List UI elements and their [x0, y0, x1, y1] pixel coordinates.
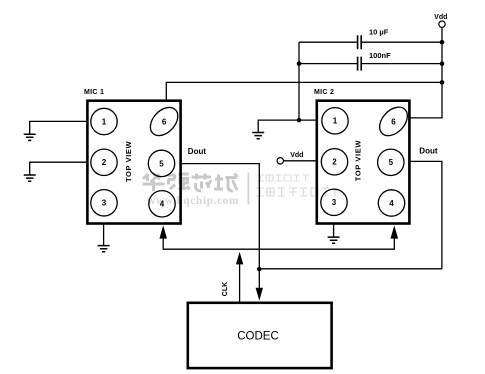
ground stem mic2 pin3: [333, 223, 335, 237]
svg-text:Dout: Dout: [419, 147, 438, 156]
svg-text:5: 5: [159, 159, 164, 168]
ground (mic2 pin1): [252, 133, 264, 139]
ground stem mic1 pin3: [103, 223, 105, 245]
svg-text:Dout: Dout: [188, 147, 207, 156]
node junction vdd rail 10uF: [440, 40, 445, 45]
svg-text:5: 5: [389, 158, 394, 167]
node junction vdd rail 100nF: [440, 61, 445, 66]
svg-text:6: 6: [162, 117, 167, 126]
svg-text:CODEC: CODEC: [237, 330, 279, 342]
node junction dout: [257, 267, 262, 272]
mic1 pin 4: [149, 191, 175, 217]
wire 10uF cap top: [299, 41, 442, 43]
svg-text:3: 3: [332, 198, 337, 207]
svg-text:2: 2: [332, 158, 337, 167]
codec U3 box: [188, 303, 332, 368]
char cheng: [214, 174, 238, 192]
node junction vdd rail mic1 pin6: [440, 80, 445, 85]
mic2 pin 3: [321, 189, 347, 215]
watermark slogan line2: [256, 188, 338, 196]
svg-text:3: 3: [102, 199, 107, 208]
wire mic2 pin1 to ground: [258, 120, 316, 132]
svg-text:TOP VIEW: TOP VIEW: [124, 140, 133, 182]
svg-text:1: 1: [333, 117, 338, 126]
ground (mic2 pin3): [328, 237, 340, 243]
svg-text:TOP VIEW: TOP VIEW: [353, 140, 362, 182]
char qiang: [168, 174, 190, 190]
Vdd rail vertical: [410, 28, 442, 118]
mic U2 package outline: [317, 101, 410, 224]
mic2 pin 1: [322, 108, 348, 134]
watermark divider: [247, 173, 249, 205]
wire pin2 mic1 to ground: [30, 162, 88, 175]
wire mic1 pin4 data in arrow: [163, 238, 394, 250]
capacitor C1 10uF plates: [358, 35, 362, 49]
svg-text:1: 1: [102, 117, 107, 126]
capacitor C2 100nF plates: [358, 57, 362, 71]
wire dout join horizontal: [259, 268, 442, 270]
wire caps ground leg: [298, 42, 300, 120]
Vdd source circle mic2 pin2: [277, 158, 283, 164]
svg-text:4: 4: [160, 200, 165, 209]
mic1 pin 6: [145, 102, 183, 141]
svg-text:CLK: CLK: [222, 282, 229, 296]
wire Vdd to mic2 pin2: [283, 160, 316, 162]
watermark logo text: [143, 173, 238, 191]
mic2 pin 4: [378, 190, 404, 216]
ground (mic1 pin3): [98, 246, 110, 252]
wire mic1 pin5 Dout down to codec: [181, 164, 259, 289]
mic U1 package outline: [87, 101, 180, 224]
svg-text:10 µF: 10 µF: [369, 28, 389, 37]
mic2 pin 5: [378, 149, 404, 175]
wire mic1 pin6 to Vdd rail: [166, 82, 442, 100]
mic1 pin 5: [148, 150, 174, 176]
svg-text:MIC 1: MIC 1: [84, 89, 104, 96]
char hua: [143, 173, 165, 191]
watermark slogan line1: [257, 175, 309, 181]
mic1 pin 3: [91, 190, 117, 216]
svg-text:MIC 2: MIC 2: [314, 89, 334, 96]
mic1 pin 1: [91, 108, 117, 134]
svg-text:2: 2: [102, 158, 107, 167]
arrow clk up: [236, 252, 243, 265]
wire pin1 mic1 to ground: [30, 121, 88, 133]
arrow into mic1 pin4: [159, 225, 167, 238]
svg-text:Vdd: Vdd: [434, 14, 447, 21]
node junction caps gnd mic2 pin1: [297, 118, 302, 123]
wire clk from codec: [239, 264, 241, 303]
arrow into codec: [256, 288, 263, 301]
svg-text:Vdd: Vdd: [290, 152, 303, 159]
ground (mic1 pin2): [24, 175, 36, 181]
Vdd terminal circle: [439, 21, 445, 27]
mic2 pin 6: [374, 102, 413, 141]
svg-text:100nF: 100nF: [369, 51, 391, 60]
ground (mic1 pin1): [24, 134, 36, 140]
mic1 pin 2: [91, 149, 117, 175]
svg-text:4: 4: [389, 199, 394, 208]
mic2 pin 2: [321, 149, 347, 175]
arrow into mic2 pin4: [391, 225, 399, 238]
char xin: [192, 174, 212, 192]
wire mic2 pin5 Dout: [410, 161, 442, 268]
wire 100nF cap: [299, 63, 442, 65]
svg-text:6: 6: [391, 117, 396, 126]
node junction caps gnd 100nF: [297, 61, 302, 66]
